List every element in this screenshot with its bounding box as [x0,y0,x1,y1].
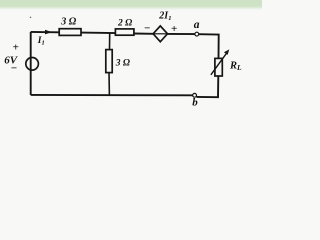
dependent source 2I1 (diamond) [153,26,167,42]
svg-text:b: b [192,96,198,108]
resistor 3Ω (middle, vertical) [106,50,112,73]
wire: RL to bottom right corner [197,76,219,97]
wire: between 3Ω and 2Ω [81,32,115,35]
svg-text:−: − [144,22,150,34]
current arrow I1 [45,30,52,35]
wire: top left segment [31,31,60,33]
node a terminal [195,32,199,36]
wire: dependent source to node a [168,33,195,35]
voltage source 6V [26,58,39,71]
svg-text:a: a [194,19,200,31]
svg-text:2 Ω: 2 Ω [117,19,132,29]
wire: between 2Ω and dependent source [134,33,153,35]
node b terminal [193,93,197,97]
wire: middle branch top lead [109,33,111,50]
arrow through RL [211,52,227,75]
svg-text:3 Ω: 3 Ω [115,59,130,69]
wire: left vertical branch [30,32,32,95]
svg-text:3 Ω: 3 Ω [60,16,77,27]
svg-text:RL: RL [229,61,242,73]
resistor RL (variable load) [215,58,222,76]
svg-text:−: − [11,62,17,74]
wire: through diamond [153,33,167,35]
speck (scan dot) [30,17,32,19]
resistor 3Ω (top left, horizontal) [59,29,81,36]
wire: node a to top right corner [199,34,219,58]
svg-text:+: + [13,42,19,54]
resistor 2Ω (top, horizontal) [115,29,133,35]
wire: middle branch bottom lead [108,73,110,96]
wire: bottom return [31,94,193,96]
